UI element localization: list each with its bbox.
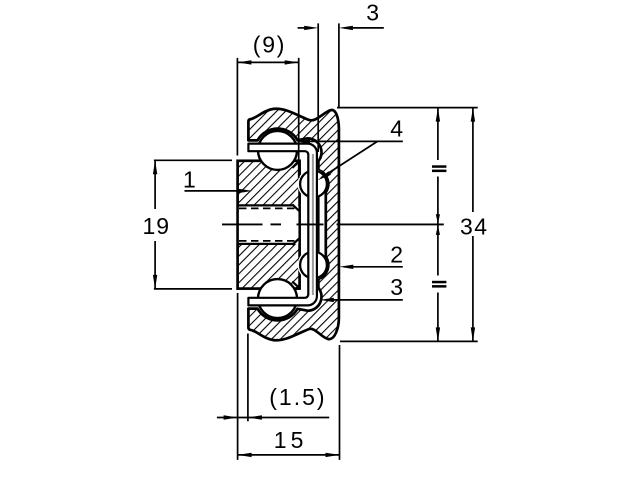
big ball top <box>258 131 297 170</box>
chamfer marks at block corners <box>292 161 300 289</box>
dimension: 3 (top) <box>298 23 384 152</box>
big ball bottom <box>258 279 297 318</box>
wall raceway mouth edge <box>317 197 319 253</box>
svg-text:3: 3 <box>390 274 403 300</box>
dimension: = / 34 (right) <box>337 108 478 342</box>
small ball top 4 <box>300 171 327 198</box>
thin rail 3 (white C-profile) <box>248 144 317 306</box>
ball raceway notch bottom (white clearance) <box>298 250 328 280</box>
recess in block <box>238 205 298 244</box>
centerline <box>222 223 444 225</box>
equals symbol top <box>432 165 446 168</box>
dimension: (9) <box>237 58 298 178</box>
equals symbol bottom <box>432 281 446 284</box>
dimension: 15 <box>238 345 340 460</box>
svg-text:1: 1 <box>183 167 196 193</box>
svg-text:34: 34 <box>460 213 489 239</box>
svg-text:4: 4 <box>390 116 403 142</box>
svg-text:3: 3 <box>366 0 379 26</box>
inner block 1 (hatched) <box>238 161 300 289</box>
svg-text:(1.5): (1.5) <box>269 384 326 410</box>
ball raceway notch top (white clearance) <box>298 169 328 199</box>
small ball bottom 4 <box>300 252 327 279</box>
svg-text:15: 15 <box>274 427 308 453</box>
dimension: (1.5) <box>217 293 329 460</box>
outer rail 2 (hatched C-channel, wavy outside) <box>248 109 339 341</box>
svg-text:19: 19 <box>143 213 171 239</box>
grey cage line <box>312 154 314 295</box>
svg-text:2: 2 <box>390 241 403 267</box>
dimension: 19 (left) <box>154 160 232 289</box>
svg-text:(9): (9) <box>253 32 287 58</box>
